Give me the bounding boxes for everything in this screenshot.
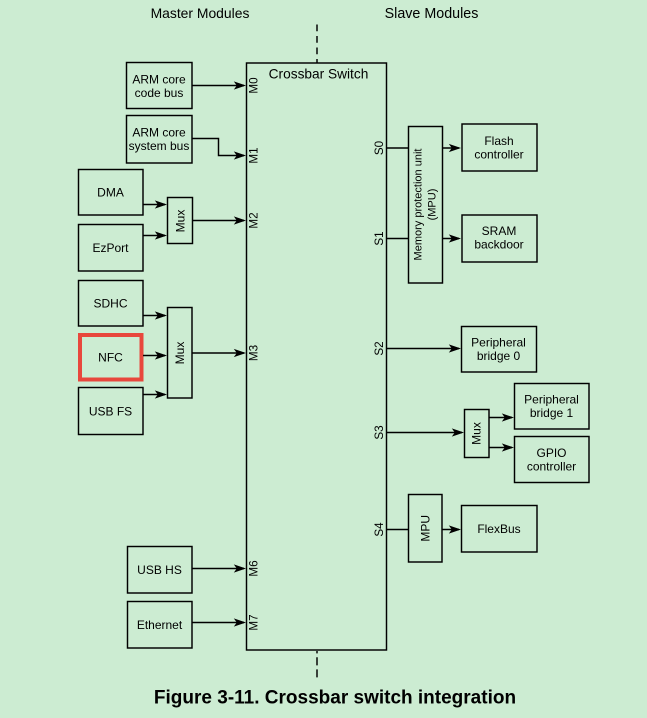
dashed stub top xyxy=(316,25,318,64)
arrowhead peripheral bridge 0 xyxy=(449,344,461,352)
box USB HS xyxy=(128,547,193,594)
svg-text:Peripheral: Peripheral xyxy=(471,335,526,349)
svg-text:M6: M6 xyxy=(248,560,261,576)
mux S3 (bridges) xyxy=(465,410,490,458)
svg-text:M0: M0 xyxy=(248,77,261,94)
arrowhead M7 xyxy=(234,618,246,626)
mux M2 (DMA/EzPort) xyxy=(168,198,193,244)
wire mux to GPIO controller xyxy=(489,447,512,449)
svg-text:Peripheral: Peripheral xyxy=(524,392,579,406)
box USB FS xyxy=(79,388,144,435)
svg-text:USB FS: USB FS xyxy=(89,404,132,418)
wire Ethernet to M7 xyxy=(192,622,244,624)
wire NFC to mux xyxy=(143,355,165,357)
arrowhead SRAM backdoor xyxy=(449,234,461,242)
mux M3 (SDHC/NFC/USB FS) xyxy=(168,308,193,399)
svg-text:S1: S1 xyxy=(373,231,386,245)
svg-text:SRAM: SRAM xyxy=(482,224,517,238)
wire S1 crossbar to MPU xyxy=(387,238,409,240)
arrowhead peripheral bridge 1 xyxy=(502,413,514,421)
svg-text:bridge 1: bridge 1 xyxy=(530,406,574,420)
arrowhead EzPort xyxy=(155,231,167,239)
box SDHC xyxy=(79,281,144,327)
svg-text:EzPort: EzPort xyxy=(92,241,129,255)
wire USB HS to M6 xyxy=(192,568,244,570)
arrowhead M6 xyxy=(234,564,246,572)
box Memory protection unit (MPU) xyxy=(409,127,443,284)
box GPIO controller xyxy=(515,437,590,483)
arrowhead M0 xyxy=(234,81,246,89)
arrowhead NFC xyxy=(155,351,167,359)
svg-text:Slave Modules: Slave Modules xyxy=(385,6,479,22)
svg-text:controller: controller xyxy=(527,459,576,473)
arrowhead M3 xyxy=(234,349,246,357)
box ARM core system bus xyxy=(127,116,193,164)
svg-text:M3: M3 xyxy=(248,345,261,361)
svg-text:USB HS: USB HS xyxy=(137,563,182,577)
arrowhead SDHC xyxy=(155,311,167,319)
arrowhead DMA xyxy=(155,200,167,208)
svg-text:M1: M1 xyxy=(248,147,261,163)
wire MPU to SRAM backdoor xyxy=(443,238,460,240)
box Peripheral bridge 0 xyxy=(462,327,537,373)
box SRAM backdoor xyxy=(462,215,537,262)
svg-text:DMA: DMA xyxy=(97,185,124,199)
box FlexBus xyxy=(462,506,538,553)
svg-text:ARM core: ARM core xyxy=(132,126,186,140)
crossbar switch box xyxy=(247,63,387,650)
svg-text:Figure 3-11. Crossbar switch i: Figure 3-11. Crossbar switch integration xyxy=(154,688,516,709)
wire EzPort to mux xyxy=(143,235,165,237)
arrowhead M2 xyxy=(234,216,246,224)
svg-text:GPIO: GPIO xyxy=(536,446,566,460)
arrowhead mux S3 xyxy=(452,428,464,436)
wire S3 to mux xyxy=(387,432,463,434)
svg-text:Ethernet: Ethernet xyxy=(137,618,183,632)
svg-text:SDHC: SDHC xyxy=(93,296,127,310)
svg-text:backdoor: backdoor xyxy=(474,237,523,251)
svg-text:M7: M7 xyxy=(248,614,261,630)
box MPU (S4) xyxy=(409,495,443,563)
svg-text:FlexBus: FlexBus xyxy=(477,522,520,536)
svg-text:Crossbar Switch: Crossbar Switch xyxy=(269,67,369,82)
svg-text:controller: controller xyxy=(474,147,523,161)
svg-text:system bus: system bus xyxy=(129,139,190,153)
box ARM core code bus xyxy=(127,63,193,109)
svg-text:Master Modules: Master Modules xyxy=(151,5,250,21)
box Flash controller xyxy=(462,124,537,171)
wire mux to M3 xyxy=(192,352,244,354)
arrowhead USB FS xyxy=(155,390,167,398)
box Ethernet xyxy=(128,602,193,649)
svg-text:Mux: Mux xyxy=(173,342,187,365)
wire S0 crossbar to MPU xyxy=(387,147,409,149)
svg-text:Memory protection unit: Memory protection unit xyxy=(413,149,425,261)
box NFC (red highlight) xyxy=(80,335,142,380)
box EzPort xyxy=(79,225,144,272)
wire mux to peripheral bridge 1 xyxy=(489,417,512,419)
svg-text:code bus: code bus xyxy=(135,86,184,100)
svg-text:(MPU): (MPU) xyxy=(426,189,438,221)
svg-text:S2: S2 xyxy=(373,341,386,355)
wire M1 jog xyxy=(192,139,244,156)
arrowhead flash controller xyxy=(449,144,461,152)
wire mux to M2 xyxy=(193,220,245,222)
arrowhead M1 xyxy=(234,151,246,159)
wire S2 to peripheral bridge 0 xyxy=(387,348,460,350)
svg-text:bridge 0: bridge 0 xyxy=(477,349,521,363)
arrowhead FlexBus xyxy=(449,525,461,533)
svg-text:Mux: Mux xyxy=(174,210,188,233)
wire SDHC to mux xyxy=(143,315,165,317)
svg-text:S0: S0 xyxy=(373,140,386,155)
box DMA xyxy=(79,170,144,216)
wire MPU to FlexBus xyxy=(442,529,459,531)
wire MPU to flash controller xyxy=(443,147,460,149)
svg-text:MPU: MPU xyxy=(418,515,432,542)
svg-text:M2: M2 xyxy=(248,212,261,228)
svg-text:Flash: Flash xyxy=(484,134,513,148)
svg-text:ARM core: ARM core xyxy=(132,73,186,87)
svg-text:NFC: NFC xyxy=(98,350,123,364)
wire S4 crossbar to MPU xyxy=(387,529,409,531)
box Peripheral bridge 1 xyxy=(515,384,590,430)
arrowhead GPIO controller xyxy=(502,443,514,451)
svg-text:S4: S4 xyxy=(373,522,386,537)
wire USB FS to mux xyxy=(143,394,165,396)
dashed stub bottom xyxy=(316,651,318,653)
wire DMA to mux xyxy=(143,204,165,206)
svg-text:Mux: Mux xyxy=(470,422,484,445)
svg-text:S3: S3 xyxy=(373,425,386,439)
wire M0 xyxy=(192,85,244,87)
